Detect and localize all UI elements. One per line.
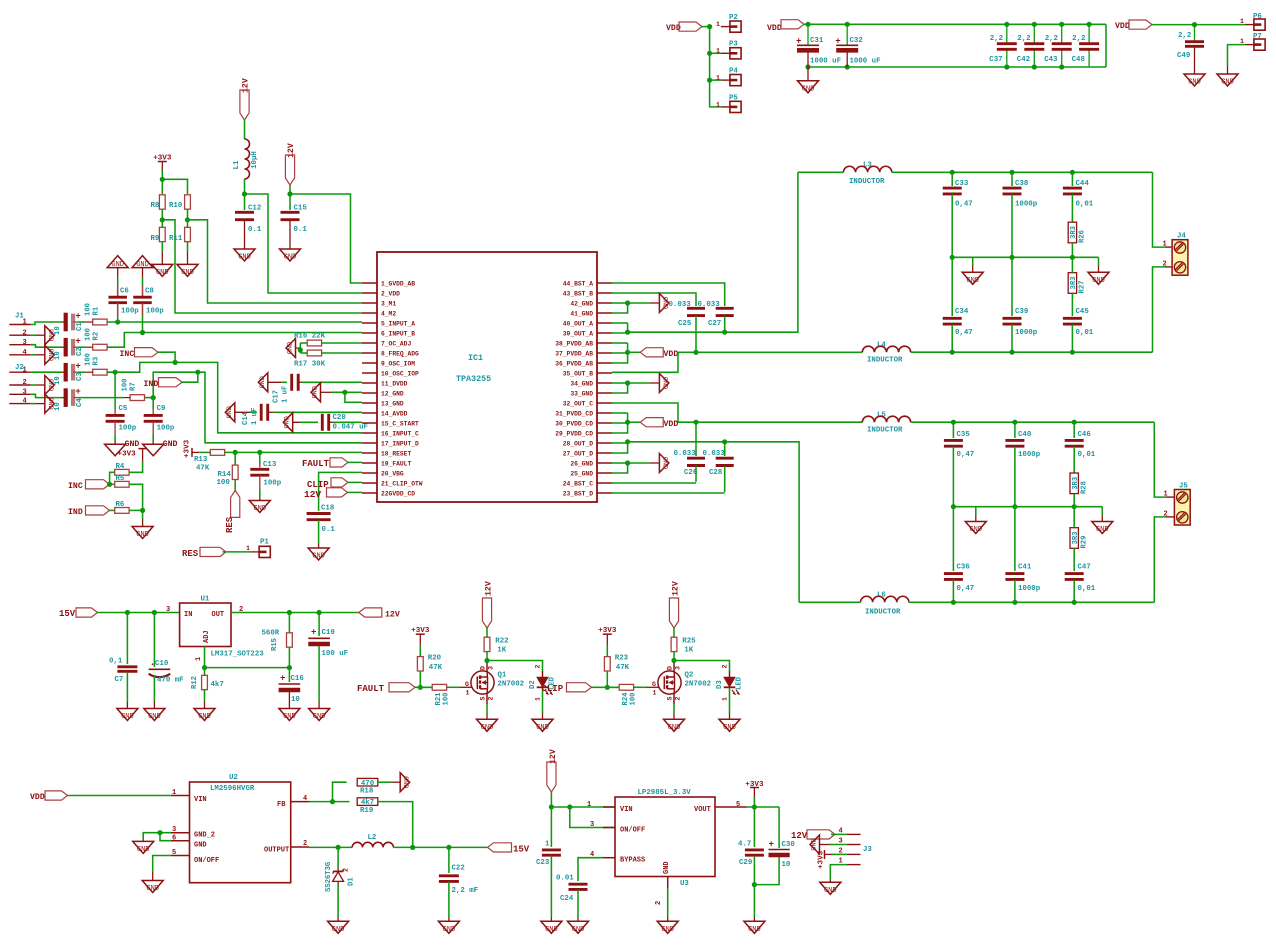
svg-text:FB: FB <box>277 801 286 809</box>
svg-text:1000p: 1000p <box>1015 201 1038 209</box>
node gndrow R28 <box>1072 504 1077 509</box>
svg-text:C43: C43 <box>1044 56 1058 64</box>
svg-text:VDD: VDD <box>1115 22 1130 31</box>
svg-text:3: 3 <box>839 838 843 846</box>
svg-text:R29: R29 <box>1080 536 1088 549</box>
svg-text:GND: GND <box>156 269 169 277</box>
svg-text:TPA3255: TPA3255 <box>456 374 491 384</box>
svg-text:16_INPUT_C: 16_INPUT_C <box>381 430 419 437</box>
wire C15 net to pin1 <box>290 194 362 283</box>
svg-text:4_M2: 4_M2 <box>381 310 396 317</box>
wire C30 drop <box>778 807 780 848</box>
svg-text:R16 22K: R16 22K <box>294 333 326 341</box>
svg-text:GND: GND <box>194 842 207 850</box>
svg-text:GND: GND <box>287 342 295 354</box>
svg-text:GND: GND <box>238 254 251 262</box>
svg-text:VIN: VIN <box>194 796 207 804</box>
wire 12V to VIN u3 <box>550 792 552 807</box>
svg-text:+3V3: +3V3 <box>118 451 137 459</box>
node C19 top <box>317 610 322 615</box>
wire P7 to gnd <box>1228 45 1245 66</box>
capacitor C17 <box>268 381 286 383</box>
wire pin43 to C25 <box>612 293 696 306</box>
svg-text:GND: GND <box>660 297 668 309</box>
svg-text:D2: D2 <box>529 680 537 689</box>
svg-text:P1: P1 <box>260 539 269 547</box>
svg-text:GND: GND <box>111 261 124 269</box>
svg-text:0,01: 0,01 <box>1076 329 1094 337</box>
svg-text:GND: GND <box>1092 277 1105 285</box>
svg-text:GND: GND <box>966 277 979 285</box>
wire C29 gnd <box>753 885 755 917</box>
wire L4 row <box>696 351 862 353</box>
svg-text:43_BST_B: 43_BST_B <box>563 290 593 297</box>
wire pvdd to flag <box>628 351 641 353</box>
wire R14 to RES flag <box>234 480 236 491</box>
wire pins31-29 pvdd cd <box>612 412 628 414</box>
svg-text:R20: R20 <box>428 654 442 662</box>
wire led gnd D3 <box>729 688 731 714</box>
svg-text:D: D <box>667 666 674 670</box>
wire 12V to J3.4 <box>831 833 847 835</box>
svg-text:100 uF: 100 uF <box>322 650 349 658</box>
svg-text:0.1: 0.1 <box>248 226 262 234</box>
svg-text:15V: 15V <box>59 609 76 619</box>
wire gate lead Q1 <box>447 686 460 688</box>
wire pins42 41 gnd <box>612 302 628 304</box>
svg-text:1000p: 1000p <box>1018 451 1041 459</box>
svg-text:10: 10 <box>54 326 62 335</box>
svg-text:R2: R2 <box>93 332 101 341</box>
svg-text:GND: GND <box>137 846 150 854</box>
wire L3 to J4.1 <box>1153 172 1165 247</box>
wire M2 net <box>162 220 362 313</box>
wire R23 to gate row <box>606 671 608 687</box>
capacitor C8 <box>142 268 144 278</box>
svg-text:5: 5 <box>736 801 740 809</box>
wire J2.4 gnd lead <box>31 403 36 405</box>
ground below C13 <box>249 501 270 513</box>
svg-text:1: 1 <box>1240 18 1244 25</box>
svg-text:L3: L3 <box>863 161 872 169</box>
wire L5 to J5.1 <box>1154 422 1166 497</box>
svg-text:2: 2 <box>488 697 495 701</box>
wire 12V to L1 <box>244 120 246 139</box>
label flag RES vertical <box>231 490 240 517</box>
ground below C16 <box>279 709 300 721</box>
wire R1 to pin5 <box>107 321 362 323</box>
wire gnd to pin12 <box>321 391 334 393</box>
svg-text:C9: C9 <box>157 405 166 413</box>
node C33 top <box>950 170 955 175</box>
svg-text:1: 1 <box>23 366 27 374</box>
svg-text:2: 2 <box>675 697 682 701</box>
svg-text:35_OUT_B: 35_OUT_B <box>563 370 593 377</box>
ground C14 <box>225 403 235 422</box>
wire R20 to gate row <box>419 671 421 687</box>
node C40 top <box>1012 420 1017 425</box>
svg-text:GND: GND <box>401 776 409 788</box>
wire u3 onoff <box>570 807 615 828</box>
svg-text:RES: RES <box>182 549 199 559</box>
wire pin24 bst_c <box>612 482 696 484</box>
svg-text:0.01: 0.01 <box>556 875 574 883</box>
svg-text:R14: R14 <box>218 471 232 479</box>
wire R8-R9 <box>161 209 163 227</box>
node vout <box>752 804 757 809</box>
svg-text:S: S <box>667 697 674 701</box>
svg-text:SS26T3G: SS26T3G <box>325 862 333 892</box>
svg-text:GND: GND <box>146 885 159 893</box>
svg-text:C10: C10 <box>155 660 169 668</box>
svg-text:0,47: 0,47 <box>957 451 975 459</box>
node gate Q1 <box>418 685 423 690</box>
node C44 top <box>1070 170 1075 175</box>
svg-text:10_OSC_IOP: 10_OSC_IOP <box>381 370 419 377</box>
node gate Q2 <box>605 685 610 690</box>
svg-text:1: 1 <box>722 697 729 701</box>
svg-text:LP2985L_3.3V: LP2985L_3.3V <box>638 789 692 797</box>
label flag 12V out <box>359 608 382 617</box>
svg-text:0,01: 0,01 <box>1076 201 1094 209</box>
svg-text:GND: GND <box>668 724 681 732</box>
svg-text:VIN: VIN <box>620 806 633 814</box>
svg-text:100: 100 <box>85 328 93 341</box>
wire pin44 to C27 <box>612 283 725 306</box>
svg-text:12V: 12V <box>385 611 400 620</box>
wire 3v3 to R8 R10 <box>161 170 163 194</box>
svg-text:1: 1 <box>716 48 720 55</box>
svg-text:3R3: 3R3 <box>1072 477 1080 490</box>
wire M1 net <box>188 220 363 303</box>
svg-text:R28: R28 <box>1080 481 1088 494</box>
node C15 top <box>287 191 292 196</box>
wire source gnd Q1 <box>486 694 488 704</box>
svg-text:GND: GND <box>313 713 326 721</box>
svg-text:21_CLIP_OTW: 21_CLIP_OTW <box>381 480 423 487</box>
svg-text:36_PVDD_AB: 36_PVDD_AB <box>555 360 593 367</box>
ground pins42 41 <box>659 294 669 313</box>
svg-text:IND: IND <box>144 380 159 389</box>
svg-text:GND: GND <box>748 926 761 934</box>
svg-text:3_M1: 3_M1 <box>381 300 396 307</box>
svg-text:INDUCTOR: INDUCTOR <box>849 178 885 186</box>
svg-text:0.047 uF: 0.047 uF <box>333 424 368 432</box>
node gndrow C38 <box>1009 255 1014 260</box>
node pin34 gnd <box>625 380 630 385</box>
wire L5 row <box>696 421 862 423</box>
svg-text:12_GND: 12_GND <box>381 390 404 397</box>
svg-text:C7: C7 <box>115 676 124 684</box>
svg-text:FAULT: FAULT <box>357 684 385 694</box>
node C10 top <box>152 610 157 615</box>
svg-text:VDD: VDD <box>664 350 679 359</box>
svg-text:100: 100 <box>443 693 451 706</box>
svg-text:R15: R15 <box>271 638 279 651</box>
wire pin35 out_b <box>612 352 678 372</box>
wire to P4 <box>710 79 721 81</box>
svg-text:G: G <box>465 681 469 688</box>
svg-text:19_FAULT: 19_FAULT <box>381 460 411 467</box>
ground below C19 <box>309 709 330 721</box>
svg-text:IC1: IC1 <box>468 353 483 363</box>
svg-text:C25: C25 <box>678 320 692 328</box>
svg-text:L2: L2 <box>368 834 377 842</box>
svg-text:12V: 12V <box>791 831 808 841</box>
svg-text:2,2: 2,2 <box>1178 32 1191 40</box>
svg-text:1: 1 <box>587 801 591 809</box>
svg-text:D: D <box>480 666 487 670</box>
svg-text:2,2: 2,2 <box>990 35 1003 43</box>
svg-text:10: 10 <box>54 351 62 360</box>
node gndrow C40 <box>1012 504 1017 509</box>
svg-text:GND: GND <box>121 713 134 721</box>
wire VDD to P6 <box>1152 24 1245 26</box>
wire IND2 to R6 <box>110 509 115 511</box>
svg-text:C24: C24 <box>560 895 574 903</box>
svg-text:0.1: 0.1 <box>322 526 336 534</box>
op-amp IC1 TPA3255 <box>377 252 597 502</box>
svg-text:2: 2 <box>655 901 663 905</box>
wire R12 gnd <box>204 690 206 702</box>
wire INC <box>158 352 175 362</box>
node bus-P4 <box>707 78 712 83</box>
svg-text:GND: GND <box>661 926 674 934</box>
ground above C8 <box>132 256 153 268</box>
svg-text:R10: R10 <box>169 202 183 210</box>
node C12 top <box>242 191 247 196</box>
ground pins12 13 <box>311 383 321 402</box>
svg-text:24_BST_C: 24_BST_C <box>563 480 593 487</box>
ground led D2 <box>532 719 553 731</box>
svg-text:Q1: Q1 <box>498 672 507 680</box>
svg-text:GND: GND <box>802 85 815 93</box>
wire R15 to adjrow <box>288 647 290 667</box>
wire gnd2 gnd bracket <box>143 833 171 839</box>
wire pins34 33 gnd <box>612 382 628 384</box>
wire OUTPUT row <box>309 846 352 848</box>
wire u3 vin row <box>551 806 615 808</box>
power flag VDD cd <box>640 418 663 427</box>
ground below C24 <box>568 921 589 933</box>
node C25 bottom <box>693 350 698 355</box>
svg-text:INC: INC <box>120 350 135 359</box>
svg-text:IND: IND <box>68 508 83 517</box>
svg-text:100: 100 <box>122 379 130 392</box>
node R16 R17 <box>298 347 303 352</box>
svg-text:12V: 12V <box>304 489 321 500</box>
wire pvddcd to flag <box>628 421 641 423</box>
wire 12V to R25 <box>673 628 675 637</box>
svg-text:Q2: Q2 <box>685 672 694 680</box>
svg-text:R1: R1 <box>93 306 101 315</box>
svg-text:+: + <box>75 387 80 397</box>
wire drain to led D3 <box>674 661 730 672</box>
svg-text:12V: 12V <box>671 581 680 596</box>
svg-text:100: 100 <box>85 353 93 366</box>
svg-text:0,01: 0,01 <box>1078 585 1096 593</box>
resistor R27 <box>1068 273 1076 294</box>
svg-text:1: 1 <box>246 545 250 552</box>
wire R10-R11 <box>187 209 189 227</box>
svg-text:C4: C4 <box>76 398 84 407</box>
svg-text:R9: R9 <box>151 235 160 243</box>
wire pins38-36 pvdd <box>612 342 628 344</box>
node C41 bot <box>1012 600 1017 605</box>
node C26 top <box>693 420 698 425</box>
svg-text:R17 30K: R17 30K <box>294 361 326 369</box>
svg-text:11_DVDD: 11_DVDD <box>381 380 408 387</box>
ground below C12 <box>234 249 255 261</box>
svg-text:1: 1 <box>716 21 720 28</box>
svg-text:+: + <box>75 312 80 322</box>
svg-text:GND: GND <box>46 379 54 391</box>
svg-text:3: 3 <box>488 666 495 670</box>
wire R19 to out <box>378 802 413 848</box>
svg-text:2N7002: 2N7002 <box>498 681 525 689</box>
svg-text:100p: 100p <box>263 480 281 488</box>
svg-text:1: 1 <box>466 690 470 697</box>
svg-text:1 uF: 1 uF <box>251 408 259 425</box>
wire INC2 to R5 <box>110 483 115 485</box>
node pvdd_cd <box>625 420 630 425</box>
svg-text:5_INPUT_A: 5_INPUT_A <box>381 320 415 327</box>
svg-text:4k7: 4k7 <box>361 799 374 807</box>
svg-text:GND: GND <box>283 713 296 721</box>
node 3v3 split <box>160 177 165 182</box>
svg-text:C35: C35 <box>957 431 971 439</box>
svg-text:3: 3 <box>23 388 27 396</box>
node C38 top <box>1009 170 1014 175</box>
wire P2-P5 bus <box>710 27 721 107</box>
node rail C43 top <box>1059 22 1064 27</box>
node rail C42 top <box>1032 22 1037 27</box>
wire J3.1 gnd <box>830 865 847 880</box>
wire R13 out to pin18 <box>225 451 362 453</box>
svg-text:C27: C27 <box>708 320 721 328</box>
svg-text:9_OSC_IOM: 9_OSC_IOM <box>381 360 415 367</box>
svg-text:1_GVDD_AB: 1_GVDD_AB <box>381 280 415 287</box>
svg-text:R12: R12 <box>191 676 199 689</box>
svg-text:+: + <box>75 337 80 347</box>
svg-text:10: 10 <box>54 402 62 411</box>
svg-text:0,47: 0,47 <box>957 585 975 593</box>
wire RES to P1 <box>223 551 251 553</box>
svg-text:GND: GND <box>545 926 558 934</box>
wire C12 net to pin2 <box>245 194 363 293</box>
svg-text:2_VDD: 2_VDD <box>381 290 400 297</box>
svg-text:R25: R25 <box>682 638 696 646</box>
ground below P7 <box>1217 74 1238 86</box>
ground J2.2 <box>45 376 55 395</box>
svg-text:1: 1 <box>653 690 657 697</box>
svg-text:GND: GND <box>536 724 549 732</box>
svg-text:3: 3 <box>23 339 27 347</box>
ground below C22 <box>438 921 459 933</box>
svg-text:GND: GND <box>1221 79 1234 87</box>
svg-text:4.7: 4.7 <box>738 841 751 849</box>
svg-text:GND: GND <box>46 349 54 361</box>
node C49 top <box>1192 22 1197 27</box>
svg-text:3: 3 <box>675 666 682 670</box>
svg-text:3R3: 3R3 <box>1070 277 1078 290</box>
svg-text:GND: GND <box>198 713 211 721</box>
wire P7 gnd stem <box>1227 66 1229 74</box>
node rail C43 bot <box>1059 64 1064 69</box>
ground u2 onoff <box>142 881 163 893</box>
svg-text:LED: LED <box>736 676 744 690</box>
wire gnd to R16R17 <box>296 347 301 349</box>
ground below R5 R6 <box>132 527 153 539</box>
node C39 bot <box>1009 350 1014 355</box>
ground J1.4 <box>45 345 55 364</box>
svg-text:VDD: VDD <box>664 420 679 429</box>
node C35 top <box>951 420 956 425</box>
node L2 R19 <box>410 845 415 850</box>
svg-text:+: + <box>75 362 80 372</box>
ground led D3 <box>719 719 740 731</box>
svg-text:2: 2 <box>722 665 729 669</box>
svg-text:2N7002: 2N7002 <box>685 681 712 689</box>
svg-text:+: + <box>311 628 316 638</box>
svg-text:18_RESET: 18_RESET <box>381 450 411 457</box>
node C46 top <box>1072 420 1077 425</box>
wire gnd row AB <box>952 256 1098 258</box>
svg-text:G: G <box>652 681 656 688</box>
wire J1.1 to C1 <box>31 322 62 325</box>
svg-text:1K: 1K <box>497 647 506 655</box>
svg-text:4k7: 4k7 <box>211 681 224 689</box>
wire R9 gnd stem <box>161 242 163 252</box>
svg-text:40_OUT_A: 40_OUT_A <box>563 320 593 327</box>
svg-text:47K: 47K <box>429 664 443 672</box>
wire 12V to R22 <box>486 628 488 637</box>
svg-text:GND: GND <box>46 329 54 341</box>
wire C31 gnd stem <box>807 67 809 80</box>
wire top rail drop right <box>1105 24 1107 67</box>
svg-text:33_GND: 33_GND <box>570 390 593 397</box>
ground below U3 <box>657 921 678 933</box>
svg-text:R23: R23 <box>615 654 629 662</box>
svg-text:6_INPUT_B: 6_INPUT_B <box>381 330 415 337</box>
node IND join <box>195 370 200 375</box>
svg-text:39_OUT_A: 39_OUT_A <box>563 330 593 337</box>
svg-text:4: 4 <box>23 398 27 406</box>
svg-text:C13: C13 <box>263 461 277 469</box>
node rail C31 bot <box>805 64 810 69</box>
svg-text:10µH: 10µH <box>251 151 259 169</box>
svg-text:CLIP: CLIP <box>542 684 564 694</box>
wire source gnd Q2 <box>673 694 675 704</box>
svg-text:8_FREQ_ADG: 8_FREQ_ADG <box>381 350 419 357</box>
svg-text:100: 100 <box>217 479 231 487</box>
node rail C32 bot <box>845 64 850 69</box>
svg-text:10: 10 <box>291 696 300 704</box>
svg-text:+: + <box>835 36 840 46</box>
svg-text:C32: C32 <box>850 37 863 45</box>
svg-text:42_GND: 42_GND <box>570 300 593 307</box>
svg-text:25_GND: 25_GND <box>570 470 593 477</box>
wire IND <box>182 372 198 382</box>
svg-text:R7: R7 <box>130 382 138 391</box>
svg-text:OUT: OUT <box>212 611 225 619</box>
svg-text:29_PVDD_CD: 29_PVDD_CD <box>555 430 593 437</box>
svg-text:1: 1 <box>535 697 542 701</box>
ground pins34 33 <box>659 374 669 393</box>
transistor Q2 <box>658 671 681 694</box>
svg-text:1000 uF: 1000 uF <box>850 58 881 66</box>
svg-text:C48: C48 <box>1072 56 1086 64</box>
